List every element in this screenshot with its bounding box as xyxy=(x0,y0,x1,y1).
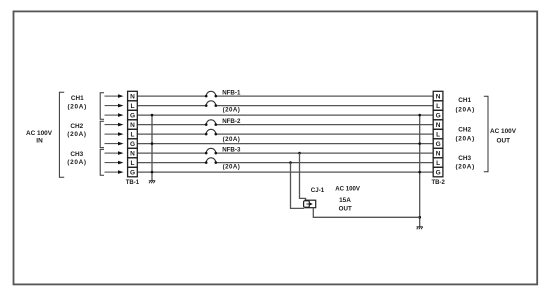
ground symbol right xyxy=(417,227,423,230)
label CH2 (20A) right xyxy=(455,127,474,143)
breaker NFB-1 xyxy=(205,89,241,113)
wire L2 xyxy=(137,133,433,135)
wire G2 xyxy=(137,143,433,145)
wire L3 xyxy=(137,162,433,164)
wire N1 xyxy=(137,95,433,97)
svg-text:(20A): (20A) xyxy=(67,103,86,110)
big bracket AC100V OUT xyxy=(484,96,488,172)
breaker NFB-2 xyxy=(205,118,241,143)
svg-text:(20A): (20A) xyxy=(67,159,86,166)
svg-text:CH1: CH1 xyxy=(458,97,471,104)
svg-text:N: N xyxy=(436,122,441,129)
svg-text:(20A): (20A) xyxy=(455,163,474,170)
svg-text:NFB-3: NFB-3 xyxy=(222,147,241,154)
svg-text:G: G xyxy=(130,112,135,119)
label CH2 (20A) left xyxy=(67,123,86,138)
label CH3 (20A) right xyxy=(455,155,474,170)
svg-text:G: G xyxy=(130,169,135,176)
ground bus left xyxy=(151,114,154,181)
terminal block TB-2 xyxy=(432,91,446,186)
wire L1 xyxy=(137,105,433,107)
wire G3 xyxy=(137,171,433,173)
big bracket AC100V IN xyxy=(59,92,64,177)
group bracket CH2 in xyxy=(100,121,104,147)
wire N2 xyxy=(137,124,433,126)
svg-text:(20A): (20A) xyxy=(67,131,86,138)
wire G1 xyxy=(137,114,433,116)
label AC 100V OUT xyxy=(490,128,517,145)
input arrows x9 xyxy=(105,94,124,174)
svg-text:(20A): (20A) xyxy=(455,136,474,143)
svg-text:IN: IN xyxy=(36,138,43,145)
svg-text:(20A): (20A) xyxy=(455,106,474,113)
svg-text:OUT: OUT xyxy=(497,138,511,145)
connector CJ-1 xyxy=(304,200,316,208)
svg-text:CH2: CH2 xyxy=(458,127,471,134)
wire N3 tap to CJ-1 xyxy=(298,152,305,201)
svg-text:OUT: OUT xyxy=(339,205,352,212)
wire CJ-1 ground return xyxy=(313,208,419,218)
svg-text:L: L xyxy=(131,131,135,138)
label CH3 (20A) left xyxy=(67,151,86,166)
svg-text:AC 100V: AC 100V xyxy=(490,128,517,135)
svg-text:L: L xyxy=(131,160,135,167)
svg-text:TB-1: TB-1 xyxy=(126,180,140,186)
svg-text:CH1: CH1 xyxy=(71,95,84,102)
svg-text:(20A): (20A) xyxy=(223,107,241,114)
svg-text:(20A): (20A) xyxy=(223,136,241,143)
wire L3 tap to CJ-1 xyxy=(289,161,304,208)
svg-text:L: L xyxy=(436,103,440,110)
group bracket CH3 in xyxy=(100,149,104,175)
svg-text:AC 100V: AC 100V xyxy=(26,130,53,137)
breaker NFB-3 xyxy=(205,147,241,171)
ground bus right xyxy=(418,114,421,227)
svg-text:N: N xyxy=(130,93,135,100)
label CH1 (20A) left xyxy=(67,95,86,110)
svg-text:CJ-1: CJ-1 xyxy=(311,187,325,194)
svg-text:L: L xyxy=(436,160,440,167)
svg-text:G: G xyxy=(436,141,441,148)
svg-text:N: N xyxy=(130,122,135,129)
svg-text:CH3: CH3 xyxy=(70,151,83,158)
label AC 100V IN xyxy=(26,130,53,145)
group bracket CH1 in xyxy=(100,93,104,120)
svg-text:N: N xyxy=(436,93,441,100)
svg-text:N: N xyxy=(436,150,441,157)
wire N3 xyxy=(137,152,433,154)
svg-text:G: G xyxy=(436,112,441,119)
svg-text:15A: 15A xyxy=(339,197,351,204)
svg-text:N: N xyxy=(130,150,135,157)
svg-text:CH3: CH3 xyxy=(458,155,471,162)
svg-text:(20A): (20A) xyxy=(223,163,241,170)
ground symbol left xyxy=(149,181,155,184)
svg-text:AC 100V: AC 100V xyxy=(335,185,361,192)
svg-text:G: G xyxy=(130,141,135,148)
terminal block TB-1 xyxy=(126,91,140,186)
svg-text:L: L xyxy=(131,103,135,110)
svg-text:NFB-2: NFB-2 xyxy=(222,118,241,125)
svg-text:G: G xyxy=(436,169,441,176)
svg-text:L: L xyxy=(436,131,440,138)
svg-text:CH2: CH2 xyxy=(70,123,83,130)
label CH1 (20A) right xyxy=(455,97,474,113)
svg-text:TB-2: TB-2 xyxy=(432,180,446,186)
svg-text:NFB-1: NFB-1 xyxy=(222,89,241,96)
